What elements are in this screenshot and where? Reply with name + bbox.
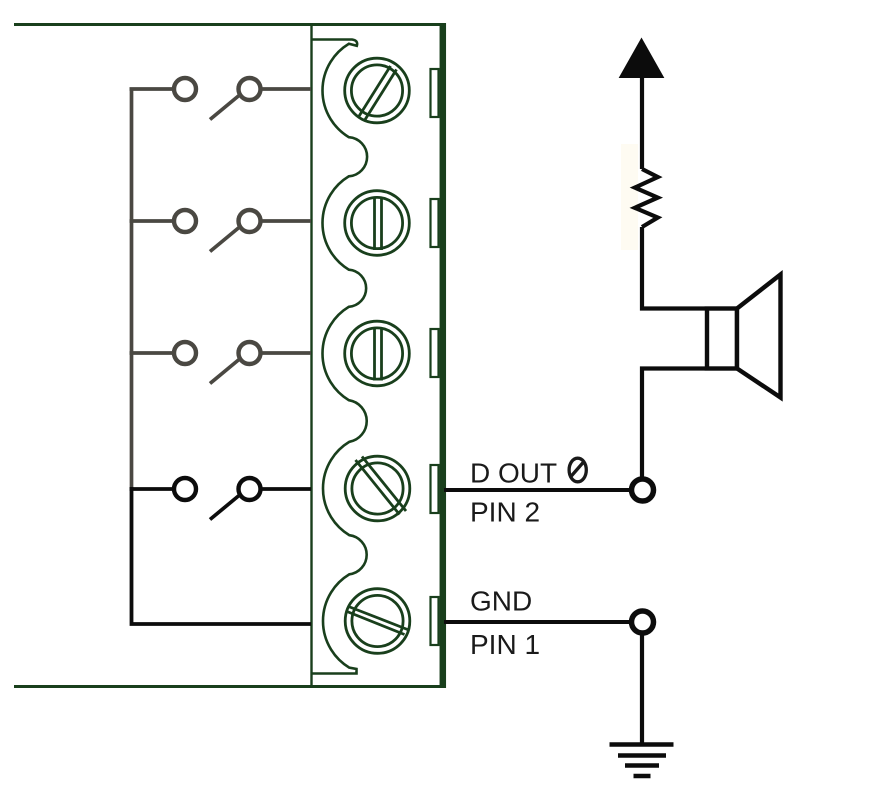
switch S1 bbox=[130, 78, 312, 120]
wire gnd node down bbox=[640, 634, 644, 745]
ground symbol bbox=[610, 745, 674, 777]
contact tab 2 bbox=[431, 199, 439, 247]
switch S4 bbox=[130, 478, 312, 520]
node GND terminal circle bbox=[632, 611, 654, 633]
contact tab 3 bbox=[431, 329, 439, 377]
wire speaker bottom to node bbox=[642, 369, 705, 479]
wire bottom bus (green) bbox=[14, 685, 440, 688]
power symbol VCC arrow bbox=[620, 39, 664, 78]
terminal block J1 outline bbox=[312, 23, 443, 688]
screw terminal 2 bbox=[345, 191, 410, 256]
wire arrow to resistor bbox=[640, 76, 644, 169]
svg-text:PIN 1: PIN 1 bbox=[470, 629, 540, 660]
left bus wire (gray) bbox=[130, 89, 134, 489]
node D OUT 0 terminal circle bbox=[632, 479, 654, 501]
left bus wire lower (black) bbox=[132, 487, 312, 624]
screw terminal 1 bbox=[345, 58, 410, 123]
svg-text:PIN 2: PIN 2 bbox=[470, 497, 540, 528]
svg-text:GND: GND bbox=[470, 586, 532, 617]
screw terminal 3 bbox=[345, 321, 410, 386]
wire top bus (green) bbox=[14, 23, 440, 26]
screw terminal 4 bbox=[345, 456, 410, 521]
wire resistor to speaker top bbox=[642, 227, 705, 309]
speaker LS1 bbox=[707, 275, 781, 398]
contact tab 4 bbox=[431, 465, 439, 513]
contact tab 5 bbox=[431, 597, 439, 645]
wire block pin1 to gnd node bbox=[444, 620, 632, 624]
screw terminal 5 bbox=[345, 589, 410, 654]
switch S3 bbox=[130, 342, 312, 384]
wire block pin2 to node bbox=[444, 488, 632, 492]
slashed zero glyph bbox=[569, 458, 586, 482]
terminal block scalloped inner wall bbox=[312, 40, 367, 674]
contact tab 1 bbox=[431, 69, 439, 117]
svg-text:D OUT: D OUT bbox=[470, 458, 557, 489]
resistor R1 bbox=[635, 169, 658, 227]
switch S2 bbox=[130, 210, 312, 252]
faint highlight strip left of resistor bbox=[621, 144, 638, 250]
